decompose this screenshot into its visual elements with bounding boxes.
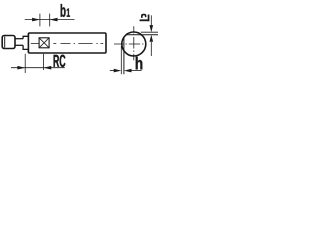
centerline (side view) bbox=[31, 43, 103, 45]
b1 dimension line bbox=[25, 19, 75, 21]
collar step upper bbox=[23, 33, 28, 39]
h dim line lower (arrow up) bbox=[150, 42, 152, 56]
RC extension line left bbox=[24, 54, 26, 73]
top flat chord bbox=[126, 34, 158, 36]
h label (rotated) bbox=[140, 14, 150, 22]
neck bottom line bbox=[15, 44, 23, 46]
head chamfer line bbox=[4, 36, 6, 47]
head (side view knob) bbox=[2, 36, 15, 49]
RC dimension line bbox=[11, 67, 65, 69]
b1 extension line right bbox=[49, 14, 51, 27]
b1 extension line left bbox=[39, 14, 41, 27]
horizontal centerline (end view) bbox=[114, 43, 143, 45]
vertical centerline (end view) bbox=[133, 26, 135, 60]
flat square bbox=[39, 38, 49, 48]
b1 arrow left bbox=[32, 18, 40, 22]
left tangent extension bbox=[120, 46, 122, 74]
flat diagonal 1 bbox=[39, 38, 49, 48]
body (shaft) bbox=[28, 33, 106, 53]
neck top line bbox=[15, 38, 23, 40]
RC arrow right bbox=[44, 66, 52, 70]
flat diagonal 2 bbox=[39, 38, 49, 48]
RC arrow left bbox=[17, 66, 25, 70]
end view circle bbox=[122, 32, 146, 56]
collar step lower bbox=[23, 45, 28, 53]
h dim line upper (arrow down) bbox=[150, 15, 152, 25]
b1 label bbox=[61, 4, 66, 17]
top tangent extension bbox=[141, 31, 158, 33]
h label (bottom) bbox=[136, 57, 143, 70]
h bottom dim line right (arrow left) bbox=[131, 70, 142, 72]
h bottom dim line left (arrow right) bbox=[110, 70, 114, 72]
b1 arrow right bbox=[50, 18, 58, 22]
RC extension line right bbox=[43, 54, 45, 70]
RC label bbox=[54, 55, 60, 67]
left flat chord bbox=[123, 37, 125, 74]
